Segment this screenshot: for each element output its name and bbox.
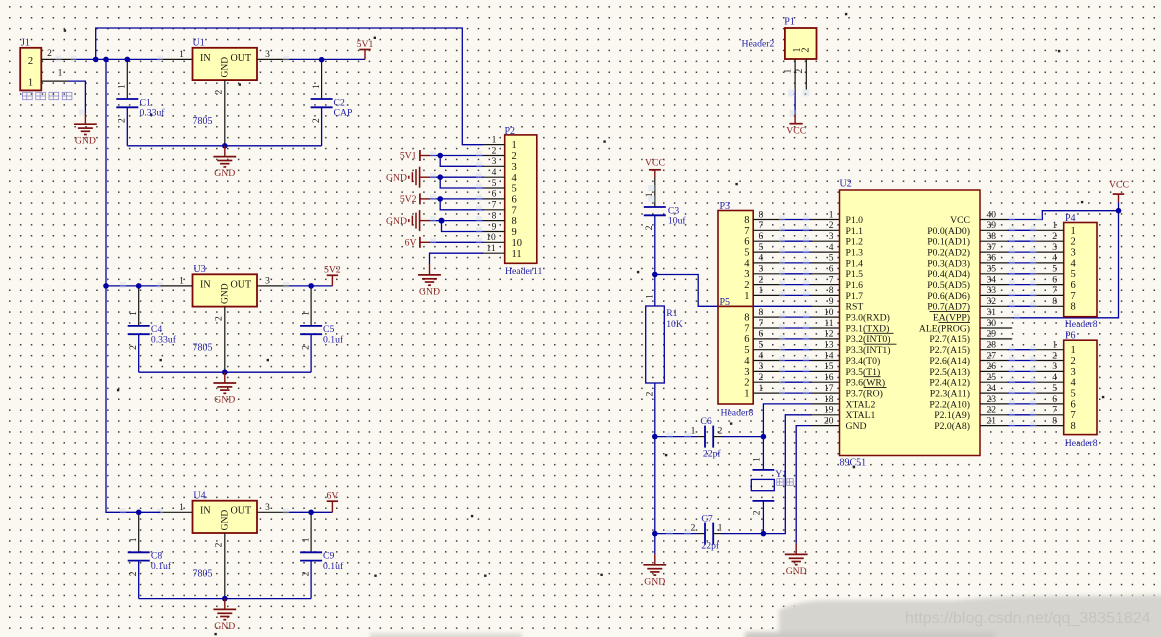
svg-text:9: 9 [492,222,497,232]
svg-text:11: 11 [824,319,833,329]
svg-text:10K: 10K [666,319,683,330]
svg-text:31: 31 [987,308,997,318]
svg-text:1: 1 [129,311,139,316]
svg-text:6: 6 [829,265,834,275]
svg-text:6: 6 [492,190,497,200]
ground GND (U2) [785,544,808,577]
svg-text:21: 21 [987,416,997,426]
power port 6V [326,491,338,513]
svg-text:5: 5 [1071,269,1076,280]
capacitor C2 [311,60,353,146]
svg-text:VCC: VCC [645,158,665,169]
junction [437,196,443,202]
wire XTAL1 [763,415,812,534]
wire 5V2 to pins 6,7 [430,194,484,211]
ground GND (J1) [74,113,97,146]
svg-text:36: 36 [987,254,997,264]
wire U1 output to 5V1 [290,58,366,60]
junction [222,143,228,149]
svg-text:15: 15 [824,362,834,372]
junction [136,510,142,516]
svg-text:GND: GND [419,286,440,297]
pin 29 stub [980,338,1012,340]
svg-text:P3.0(RXD): P3.0(RXD) [846,313,890,324]
svg-text:3: 3 [1071,248,1076,259]
ground GND (P2) [418,264,441,297]
svg-text:0.1uf: 0.1uf [323,561,344,572]
svg-text:P1.5: P1.5 [846,269,864,280]
wire 5V1 to pins 2,3 [430,151,484,168]
svg-text:P3.6(WR): P3.6(WR) [846,378,886,389]
power ground port GND (P2 pin8) [386,210,430,231]
pin U4-2 [215,533,225,599]
svg-text:1: 1 [512,140,517,151]
wire pin 11 to GND [430,253,484,264]
svg-text:7805: 7805 [193,569,213,580]
pin U4-1 [120,503,193,515]
pin 30 stub [980,327,1012,329]
svg-text:2: 2 [1071,237,1076,248]
svg-text:C6: C6 [700,416,711,427]
svg-text:P1.4: P1.4 [846,258,864,269]
svg-text:4: 4 [1071,258,1077,269]
pin U3-3 [257,277,290,289]
wire GND rail U3 [139,371,311,373]
svg-text:12: 12 [824,330,834,340]
pin J1-2 [41,49,73,59]
svg-text:1: 1 [744,389,749,400]
svg-text:P6: P6 [1065,331,1076,342]
svg-text:GND: GND [214,395,235,406]
svg-text:P0.6(AD6): P0.6(AD6) [927,291,970,302]
wire P1-1 to VCC [788,90,797,118]
svg-text:1: 1 [1052,221,1057,231]
svg-text:5: 5 [1071,389,1076,400]
svg-text:IN: IN [200,53,211,64]
svg-text:RST: RST [846,302,864,313]
svg-text:CAP: CAP [334,108,353,119]
svg-text:2: 2 [129,345,139,350]
svg-text:2: 2 [118,118,128,123]
svg-text:13: 13 [824,341,834,351]
power port 5V1 [357,39,374,60]
svg-text:19: 19 [824,406,834,416]
svg-text:24: 24 [987,384,997,394]
wire GND to pins 8,9 [430,216,484,233]
svg-text:8: 8 [829,286,834,296]
wires P3/P5 to U2 pins 1-8,10-17 [753,215,839,395]
pin XTAL1 stub [812,414,840,416]
svg-text:4: 4 [1071,378,1077,389]
svg-text:27: 27 [987,351,997,361]
svg-text:2: 2 [215,542,225,547]
wire U3 output to 5V2 [290,285,333,287]
svg-text:6: 6 [1071,280,1076,291]
pin numbers P3/P5 side [759,210,764,394]
svg-text:https://blog.csdn.net/qq_38351: https://blog.csdn.net/qq_38351824 [905,610,1151,627]
svg-text:7: 7 [829,275,834,285]
svg-text:7: 7 [1071,410,1076,421]
svg-text:2: 2 [645,225,655,230]
pin RST stub [812,305,840,307]
svg-text:GND: GND [386,172,407,183]
svg-text:6: 6 [744,237,749,248]
capacitor C1 [116,59,165,145]
junction [103,57,109,63]
junction [222,596,228,602]
svg-text:P0.0(AD0): P0.0(AD0) [927,226,970,237]
wire left rail [105,59,107,286]
svg-text:2: 2 [492,146,497,156]
svg-text:4: 4 [1052,373,1057,383]
svg-text:GND: GND [220,57,230,78]
ground GND (U1) [213,146,236,179]
svg-text:2: 2 [301,571,311,576]
wire 6V to pin 10 [430,238,484,244]
pin U1-3 [257,50,290,62]
capacitor C4 [128,286,177,372]
svg-text:P3.5(T1): P3.5(T1) [846,367,881,378]
svg-text:OUT: OUT [231,506,252,517]
svg-text:1: 1 [179,277,184,287]
svg-text:11: 11 [512,249,522,260]
capacitor C8 [128,512,172,598]
pin U3-2 [215,307,225,373]
svg-text:3: 3 [759,362,764,372]
svg-text:29: 29 [987,330,997,340]
wire GND rail U4 [139,598,311,600]
svg-text:P0.1(AD1): P0.1(AD1) [927,237,970,248]
svg-text:8: 8 [1052,416,1057,426]
pin GND stub [812,425,840,427]
svg-text:Header8: Header8 [1065,438,1098,449]
svg-text:2: 2 [512,151,517,162]
junction [319,57,325,63]
svg-text:2: 2 [312,118,322,123]
svg-text:7805: 7805 [193,342,213,353]
capacitor C9 [300,512,344,598]
svg-text:VCC: VCC [1109,179,1129,190]
svg-text:P2.3(A11): P2.3(A11) [930,389,970,400]
svg-text:2: 2 [691,523,696,533]
connector P4 Header8 [1064,213,1098,330]
svg-text:U4: U4 [193,490,205,501]
pin U3-1 [160,277,192,287]
svg-text:16: 16 [824,373,834,383]
crystal Y1 [751,437,787,534]
junction [125,57,131,63]
pins P2 1-11 [484,135,505,254]
svg-text:OUT: OUT [231,53,252,64]
ground GND (U3) [213,372,236,405]
svg-text:4: 4 [1052,254,1057,264]
svg-text:6: 6 [759,232,764,242]
power ground port GND (P2 pin4) [386,167,430,188]
svg-text:P2.7(A15): P2.7(A15) [929,334,970,345]
wire U4 output to 6V [290,511,333,513]
svg-text:2: 2 [718,426,723,436]
svg-text:P2.5(A13): P2.5(A13) [929,367,970,378]
wire rail to U4 input [139,511,161,513]
connector P6 Header8 [1064,331,1098,450]
capacitor C5 [300,286,344,372]
svg-text:IN: IN [200,279,211,290]
pin U4-3 [257,503,290,515]
svg-text:11: 11 [486,244,495,254]
svg-text:20: 20 [824,416,834,426]
svg-text:9: 9 [829,297,834,307]
svg-text:1: 1 [301,537,311,542]
svg-text:4: 4 [759,351,764,361]
junction [652,531,658,537]
svg-text:7: 7 [759,221,764,231]
svg-text:7: 7 [1071,291,1076,302]
regulator U1 7805 [193,37,258,126]
svg-text:3: 3 [759,265,764,275]
svg-text:35: 35 [987,265,997,275]
svg-text:40: 40 [987,210,997,220]
ground GND (left rail) [643,534,666,588]
svg-text:4: 4 [744,356,750,367]
svg-text:7: 7 [744,226,749,237]
svg-text:C7: C7 [701,514,712,525]
svg-text:Header11: Header11 [505,266,542,277]
junction [222,369,228,375]
svg-text:3: 3 [1052,243,1057,253]
svg-text:10: 10 [824,308,834,318]
svg-text:6: 6 [1052,275,1057,285]
power port 5V2 (P2) [400,193,430,205]
svg-text:0.33uf: 0.33uf [140,108,166,119]
wire to top rail [96,28,484,145]
svg-text:1: 1 [759,384,764,394]
svg-text:1: 1 [301,311,311,316]
junction [103,283,109,289]
svg-text:1: 1 [646,294,656,299]
junction [437,174,443,180]
svg-text:P0.7(AD7): P0.7(AD7) [927,302,970,313]
svg-text:U2: U2 [840,179,852,190]
svg-text:2: 2 [829,221,834,231]
svg-text:GND: GND [220,510,230,531]
svg-text:10: 10 [486,233,496,243]
pin U1-1 [157,50,193,62]
svg-text:P2.1(A9): P2.1(A9) [934,410,970,421]
svg-text:28: 28 [987,341,997,351]
power port VCC (C3) [645,158,665,178]
svg-text:6: 6 [512,195,517,206]
pin U1-2 [215,80,225,146]
pin XTAL2 stub [812,403,840,405]
svg-text:38: 38 [987,232,997,242]
svg-text:GND: GND [220,283,230,304]
svg-text:2: 2 [759,373,764,383]
svg-text:5V1: 5V1 [357,39,374,50]
regulator U3 7805 [193,264,258,353]
power port VCC (P1) [786,114,806,137]
svg-text:3: 3 [265,277,270,287]
svg-text:2: 2 [28,56,33,67]
svg-text:1: 1 [1052,341,1057,351]
junction [439,218,445,224]
wire XTAL2 [763,404,812,437]
svg-text:89C51: 89C51 [840,457,867,468]
svg-text:6: 6 [744,334,749,345]
svg-text:GND: GND [214,621,235,632]
svg-text:1: 1 [1071,345,1076,356]
junction [437,153,443,159]
junction [308,510,314,516]
svg-text:14: 14 [824,351,834,361]
junction [761,434,767,440]
svg-text:7805: 7805 [193,116,213,127]
ground GND (U4) [213,599,236,632]
svg-text:2: 2 [744,378,749,389]
svg-text:2: 2 [795,69,805,74]
svg-text:1: 1 [753,457,763,462]
MCU U2 89C51 [840,179,981,469]
svg-text:P3.4(T0): P3.4(T0) [846,356,881,367]
svg-text:7: 7 [744,323,749,334]
svg-text:7: 7 [492,201,497,211]
svg-text:7: 7 [1052,406,1057,416]
pin P1-1 [784,59,796,90]
svg-text:5V2: 5V2 [324,265,341,276]
connector J1 [20,38,41,91]
pin J1-1 [41,69,68,82]
svg-text:5: 5 [512,184,517,195]
wire U2 GND pin20 [796,426,812,544]
svg-text:ALE(PROG): ALE(PROG) [919,323,970,334]
svg-text:10: 10 [512,238,523,249]
svg-text:5: 5 [744,345,749,356]
svg-text:6: 6 [759,330,764,340]
svg-text:1: 1 [744,291,749,302]
svg-text:6V: 6V [326,491,338,502]
svg-text:7: 7 [1052,286,1057,296]
svg-text:5V1: 5V1 [400,151,417,162]
svg-text:4: 4 [759,254,764,264]
junction [136,283,142,289]
svg-text:P4: P4 [1065,213,1076,224]
svg-text:GND: GND [214,168,235,179]
svg-text:GND: GND [846,421,867,432]
svg-text:1: 1 [179,50,184,60]
svg-text:5: 5 [492,179,497,189]
svg-text:22pf: 22pf [703,449,722,460]
capacitor C6 22pf [655,416,764,460]
svg-text:8: 8 [759,308,764,318]
svg-text:OUT: OUT [231,279,252,290]
svg-text:32: 32 [987,297,997,307]
power port 5V2 [324,265,341,286]
svg-text:8: 8 [744,215,749,226]
svg-text:2: 2 [301,345,311,350]
svg-text:1: 1 [58,69,63,79]
svg-text:2: 2 [1071,356,1076,367]
svg-text:Header8: Header8 [1065,319,1098,330]
svg-text:3: 3 [512,162,517,173]
svg-text:P1.7: P1.7 [846,291,864,302]
svg-text:P0.5(AD5): P0.5(AD5) [927,280,970,291]
svg-text:J1: J1 [21,38,30,49]
svg-text:2: 2 [215,316,225,321]
pin P1-2 [795,59,810,97]
svg-text:8: 8 [759,210,764,220]
svg-text:P3.7(RO): P3.7(RO) [846,389,883,400]
svg-text:1: 1 [691,426,696,436]
svg-text:P1.2: P1.2 [846,237,864,248]
capacitor C3 [644,178,687,275]
svg-text:1: 1 [1071,226,1076,237]
svg-text:8: 8 [1071,302,1076,313]
svg-text:17: 17 [824,384,834,394]
svg-text:8: 8 [744,313,749,324]
svg-text:7: 7 [759,319,764,329]
wire left rail lower [106,286,139,512]
svg-text:0.1uf: 0.1uf [323,335,344,346]
svg-text:1: 1 [829,210,834,220]
wires U2 P0 to P4 [980,221,1064,308]
svg-text:2: 2 [1052,351,1057,361]
svg-text:P0.4(AD4): P0.4(AD4) [927,269,970,280]
svg-text:R1: R1 [666,308,677,319]
svg-text:U1: U1 [193,37,205,48]
svg-text:34: 34 [987,275,997,285]
svg-text:22: 22 [987,406,997,416]
svg-text:P1.3: P1.3 [846,248,864,259]
connector P3 Header8 [718,201,753,306]
svg-text:VCC: VCC [786,126,806,137]
svg-text:3: 3 [1052,362,1057,372]
svg-text:P5: P5 [720,297,731,308]
svg-text:8: 8 [1071,421,1076,432]
wire J1-2 to U1 input [56,56,161,62]
regulator U4 7805 [193,490,258,579]
pin numbers U2 right side [987,210,997,426]
svg-text:XTAL1: XTAL1 [846,410,876,421]
junction [308,283,314,289]
svg-text:6V: 6V [405,238,417,249]
svg-text:4: 4 [492,168,497,178]
svg-text:P2.6(A14): P2.6(A14) [929,356,970,367]
svg-text:1: 1 [118,84,128,89]
svg-text:2: 2 [744,280,749,291]
svg-text:U3: U3 [193,264,205,275]
pin numbers U2 left side [824,210,834,426]
svg-text:3: 3 [829,232,834,242]
connector P5 Header8 [718,297,753,418]
svg-text:Header8: Header8 [721,407,754,418]
svg-text:P2: P2 [505,126,516,137]
svg-text:2: 2 [215,90,225,95]
svg-text:2: 2 [753,510,763,515]
svg-text:37: 37 [987,243,997,253]
junction [93,57,99,63]
svg-text:2: 2 [646,391,656,396]
svg-text:2: 2 [47,49,52,59]
svg-text:GND: GND [75,136,96,147]
wire EA pin31 to VCC [980,211,1119,320]
svg-text:P2.0(A8): P2.0(A8) [934,421,970,432]
svg-text:1: 1 [129,537,139,542]
svg-text:8: 8 [1052,297,1057,307]
power port 5V1 (P2) [400,150,430,162]
svg-text:P0.2(AD2): P0.2(AD2) [927,248,970,259]
svg-text:8: 8 [512,216,517,227]
label 电源端子 [23,92,72,99]
svg-text:4: 4 [744,258,750,269]
